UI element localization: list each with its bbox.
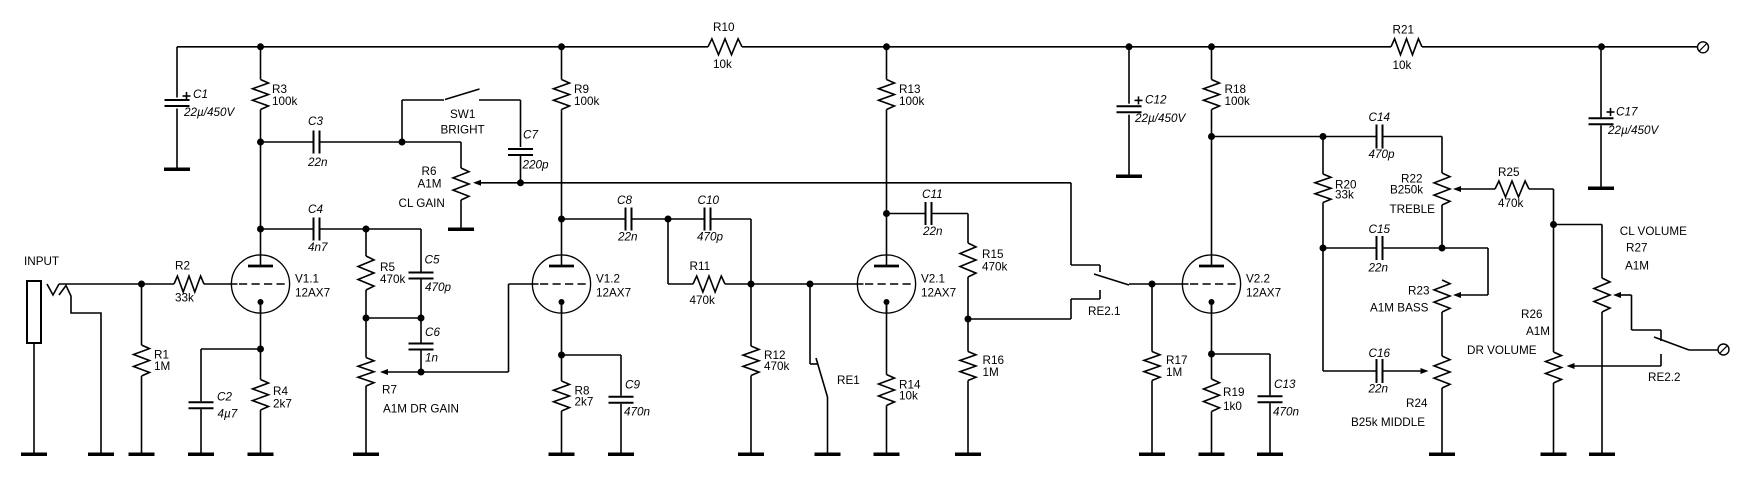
svg-text:C7: C7 [523, 129, 538, 142]
ground jack sleeve [21, 453, 47, 457]
svg-text:33k: 33k [1335, 189, 1354, 202]
wire cathode to C9 [562, 354, 622, 356]
triode V2.1 [857, 254, 956, 313]
svg-text:DR VOLUME: DR VOLUME [1467, 344, 1537, 357]
svg-text:R2: R2 [175, 260, 190, 273]
svg-text:R7: R7 [382, 384, 397, 397]
ground R6 [448, 228, 474, 232]
node C15 right junction [1439, 245, 1446, 252]
jack shunt contact [59, 286, 101, 453]
svg-text:470k: 470k [982, 261, 1008, 274]
capacitor C15 [1323, 223, 1442, 275]
svg-text:C9: C9 [625, 379, 640, 392]
svg-text:22n: 22n [1368, 262, 1389, 275]
capacitor C12 [1117, 47, 1187, 175]
wire V1.2 cathode [561, 302, 563, 355]
svg-text:22n: 22n [307, 156, 328, 169]
wire R15 junction to RE2.1 [968, 318, 1071, 320]
svg-text:470p: 470p [1369, 148, 1396, 161]
capacitor C7 [508, 100, 549, 183]
wire V1.1 anode [260, 142, 262, 256]
capacitor C10 [668, 194, 751, 284]
svg-text:100k: 100k [272, 95, 298, 108]
svg-text:C13: C13 [1274, 378, 1296, 391]
ground R16 [955, 453, 981, 457]
node V1.2 anode / C8 [558, 216, 565, 223]
node C8 / C10 junction [665, 216, 672, 223]
potentiometer R7 DR GAIN [358, 318, 459, 453]
node R15 / R16 junction [965, 316, 972, 323]
potentiometer R22 TREBLE [1390, 172, 1451, 248]
potentiometer R26 DR VOLUME [1467, 225, 1562, 453]
resistor R1 [134, 284, 171, 453]
resistor R12 [743, 284, 790, 453]
svg-text:V2.1: V2.1 [921, 273, 945, 286]
potentiometer R24 MIDDLE [1351, 312, 1450, 453]
node rail junction at C17 [1598, 43, 1605, 50]
wire anode to tone stack [1212, 137, 1443, 174]
ground R7 [353, 453, 379, 457]
ground C2 [188, 453, 214, 457]
terminal B+ output [1698, 42, 1709, 53]
svg-text:R25: R25 [1498, 166, 1520, 179]
wire C4 junction to C5 [366, 229, 421, 272]
svg-text:R11: R11 [690, 260, 711, 273]
wire C15 left leg [1322, 248, 1324, 371]
capacitor C9 [609, 355, 651, 453]
svg-text:10k: 10k [1393, 59, 1412, 72]
resistor R9 [554, 47, 600, 219]
svg-text:10k: 10k [899, 390, 918, 403]
svg-text:470k: 470k [690, 294, 716, 307]
node input junction [138, 281, 145, 288]
svg-text:1M: 1M [1166, 366, 1182, 379]
wire R5-C5 bottom [366, 317, 421, 319]
node rail junction at R13 [883, 43, 890, 50]
capacitor C17 [1589, 47, 1660, 187]
capacitor C14 [1369, 111, 1396, 161]
svg-text:C15: C15 [1369, 223, 1391, 236]
svg-text:10k: 10k [713, 58, 732, 71]
potentiometer R6 CL GAIN [399, 142, 470, 228]
wire V2.2 anode [1211, 137, 1213, 256]
svg-text:C2: C2 [217, 391, 232, 404]
svg-text:12AX7: 12AX7 [1246, 287, 1281, 300]
wire C16 to R24 wiper [1383, 368, 1429, 374]
node V1.2 cathode [558, 352, 565, 359]
svg-text:A1M: A1M [1526, 325, 1550, 338]
svg-text:22µ/450V: 22µ/450V [1607, 124, 1659, 137]
svg-text:INPUT: INPUT [24, 255, 59, 268]
svg-text:2k7: 2k7 [575, 396, 594, 409]
svg-text:100k: 100k [899, 95, 925, 108]
node R5 / R7 junction [363, 315, 370, 322]
svg-text:12AX7: 12AX7 [921, 287, 956, 300]
svg-text:470p: 470p [425, 281, 452, 294]
svg-text:C8: C8 [617, 194, 632, 207]
node R20 top junction [1320, 133, 1327, 140]
ground C12 [1116, 175, 1142, 179]
wire R27 wiper to RE2.2 [1613, 292, 1661, 341]
resistor R4 [253, 349, 292, 453]
svg-text:C14: C14 [1369, 111, 1391, 124]
ground C13 [1257, 453, 1283, 457]
wire long rail to RE2.1 [521, 183, 1072, 265]
potentiometer R23 BASS [1370, 280, 1450, 315]
capacitor C13 [1258, 354, 1300, 453]
node V2.2 grid junction [1149, 281, 1156, 288]
triode V2.2 [1182, 254, 1281, 313]
capacitor C1 [165, 47, 236, 168]
svg-text:470n: 470n [624, 406, 650, 419]
svg-text:R23: R23 [1408, 285, 1429, 298]
ground C17 [1588, 187, 1614, 191]
svg-text:22µ/450V: 22µ/450V [1134, 112, 1186, 125]
switch SW1 [402, 89, 521, 142]
node RE1 junction [807, 281, 814, 288]
svg-text:22µ/450V: 22µ/450V [183, 106, 235, 119]
wire junction to R27 [1554, 225, 1603, 279]
node V1.1 cathode [257, 346, 264, 353]
svg-text:A1M: A1M [1625, 260, 1649, 273]
wire R23 wiper strap [1442, 248, 1488, 298]
svg-text:4µ7: 4µ7 [218, 408, 238, 421]
node V2.2 anode junction [1208, 133, 1215, 140]
svg-text:C17: C17 [1616, 106, 1638, 119]
svg-text:R10: R10 [713, 21, 735, 34]
node V2.1 anode / C11 [883, 210, 890, 217]
resistor R21 [1391, 24, 1422, 73]
svg-text:R21: R21 [1393, 24, 1414, 37]
svg-text:C10: C10 [698, 194, 720, 207]
svg-text:C6: C6 [425, 326, 440, 339]
capacitor C8 [562, 194, 669, 244]
resistor R20 [1315, 137, 1357, 249]
node R25 output junction [1550, 221, 1557, 228]
svg-text:B250k: B250k [1390, 184, 1423, 197]
svg-text:A1M: A1M [418, 178, 442, 191]
svg-text:12AX7: 12AX7 [596, 287, 631, 300]
resistor R16 [960, 319, 1004, 453]
svg-text:V1.1: V1.1 [295, 273, 319, 286]
ground R1 [129, 453, 155, 457]
svg-text:1n: 1n [425, 352, 438, 365]
ground R24 [1429, 453, 1455, 457]
svg-text:470k: 470k [1498, 197, 1524, 210]
resistor R8 [554, 355, 594, 453]
capacitor C2 [189, 349, 238, 453]
relay contact RE1 [810, 284, 860, 453]
capacitor C11 [887, 188, 969, 243]
svg-text:470k: 470k [764, 360, 790, 373]
resistor R25 [1495, 166, 1554, 225]
resistor R11 [668, 219, 751, 307]
svg-text:C3: C3 [308, 115, 323, 128]
svg-text:C11: C11 [922, 188, 943, 201]
svg-text:100k: 100k [1225, 95, 1251, 108]
node rail junction at C12 [1126, 43, 1133, 50]
svg-text:CL VOLUME: CL VOLUME [1620, 225, 1687, 238]
capacitor C4 [261, 203, 367, 254]
svg-text:B25k MIDDLE: B25k MIDDLE [1351, 416, 1425, 429]
svg-text:R6: R6 [422, 165, 437, 178]
wire R26 wiper to RE2.2 [1567, 354, 1662, 369]
resistor R3 [253, 47, 298, 142]
svg-text:RE1: RE1 [837, 374, 860, 387]
svg-text:R4: R4 [273, 385, 288, 398]
node rail junction at R9 [558, 43, 565, 50]
ground R14 [874, 453, 900, 457]
svg-text:470k: 470k [380, 273, 406, 286]
svg-text:1M: 1M [983, 366, 999, 379]
jack tip contact [47, 284, 59, 295]
svg-text:SW1: SW1 [450, 108, 475, 121]
svg-text:TREBLE: TREBLE [1390, 203, 1436, 216]
ground RE1 [815, 453, 841, 457]
svg-text:33k: 33k [175, 292, 194, 305]
svg-text:CL GAIN: CL GAIN [399, 197, 445, 210]
svg-text:100k: 100k [574, 95, 600, 108]
potentiometer R27 CL VOLUME [1594, 225, 1687, 453]
svg-text:1M: 1M [154, 360, 170, 373]
terminal output jack [1718, 344, 1729, 355]
node C4 / R5 junction [363, 226, 370, 233]
triode V1.1 [231, 254, 330, 313]
ground C9 [608, 453, 634, 457]
svg-text:R19: R19 [1223, 386, 1244, 399]
svg-text:A1M BASS: A1M BASS [1370, 302, 1429, 315]
relay contact RE2.2 [1648, 337, 1718, 384]
ground jack shunt [88, 453, 114, 457]
svg-text:22n: 22n [1368, 383, 1389, 396]
relay contact RE2.1 [1071, 265, 1152, 319]
resistor R10 [708, 21, 742, 71]
wire input to R2 [59, 283, 174, 285]
svg-text:470p: 470p [697, 231, 724, 244]
node V1.1 anode / C3 [257, 139, 264, 146]
ground R12 [738, 453, 764, 457]
resistor R14 [879, 302, 921, 453]
capacitor C3 [261, 115, 403, 169]
resistor R13 [879, 47, 925, 214]
svg-text:22n: 22n [617, 231, 638, 244]
resistor R15 [960, 243, 1008, 319]
resistor R5 [358, 229, 406, 318]
svg-text:470n: 470n [1273, 406, 1299, 419]
resistor R18 [1204, 47, 1251, 137]
wire R6 wiper [473, 180, 521, 186]
node C7 / wiper junction [517, 179, 524, 186]
wire V2.1 anode [886, 214, 888, 256]
node V1.1 anode / C4 [257, 226, 264, 233]
node V2.2 cathode [1208, 351, 1215, 358]
ground C1 [164, 168, 190, 172]
svg-text:R15: R15 [982, 248, 1004, 261]
ground R26 [1541, 453, 1567, 457]
node R20 bottom junction [1320, 245, 1327, 252]
svg-text:R27: R27 [1626, 242, 1647, 255]
wire cathode to C13 [1212, 353, 1271, 355]
ground R19 [1199, 453, 1225, 457]
node C6 / wiper junction [418, 369, 425, 376]
wire V1.2 anode [561, 219, 563, 256]
svg-text:RE2.1: RE2.1 [1088, 305, 1120, 318]
capacitor C6 [409, 318, 441, 372]
triode V1.2 [532, 254, 631, 313]
wire V2.2 cathode [1211, 302, 1213, 354]
svg-text:220p: 220p [522, 159, 550, 172]
ground R8 [549, 453, 575, 457]
wire top B+ rail [177, 46, 1698, 48]
ground R27 [1589, 453, 1615, 457]
wire to V2.2 grid [1152, 283, 1183, 285]
svg-text:C16: C16 [1369, 347, 1391, 360]
svg-text:V1.2: V1.2 [596, 273, 620, 286]
wire cathode to C2 [201, 348, 261, 350]
capacitor C5 [409, 254, 452, 319]
node R11 / R12 junction [748, 281, 755, 288]
svg-text:R24: R24 [1406, 397, 1428, 410]
node C5 / C6 junction [418, 315, 425, 322]
svg-text:1k0: 1k0 [1223, 400, 1242, 413]
wire to V2.1 grid [751, 283, 858, 285]
svg-text:C5: C5 [425, 254, 440, 267]
wire R7 wiper to V1.2 grid [380, 284, 533, 375]
svg-text:C1: C1 [193, 88, 208, 101]
svg-text:C4: C4 [308, 203, 323, 216]
ground R17 [1139, 453, 1165, 457]
svg-text:V2.2: V2.2 [1246, 273, 1270, 286]
svg-text:2k7: 2k7 [273, 398, 292, 411]
svg-text:A1M DR GAIN: A1M DR GAIN [383, 403, 459, 416]
svg-text:12AX7: 12AX7 [295, 287, 330, 300]
capacitor C16 [1323, 347, 1390, 396]
wire V1.1 cathode [260, 302, 262, 349]
svg-text:R26: R26 [1521, 308, 1542, 321]
node rail junction at R3 [257, 43, 264, 50]
resistor R19 [1204, 354, 1245, 453]
svg-text:RE2.2: RE2.2 [1648, 371, 1680, 384]
node C3 / SW1 junction [399, 139, 406, 146]
svg-text:4n7: 4n7 [308, 241, 328, 254]
node rail junction at R18 [1208, 43, 1215, 50]
resistor R2 [174, 260, 232, 305]
svg-text:22n: 22n [922, 225, 943, 238]
svg-text:BRIGHT: BRIGHT [441, 124, 485, 137]
input jack J1 [24, 255, 59, 453]
resistor R17 [1144, 284, 1187, 453]
wire R22 wiper [1453, 186, 1495, 192]
ground R4 [248, 453, 274, 457]
svg-text:C12: C12 [1145, 94, 1167, 107]
